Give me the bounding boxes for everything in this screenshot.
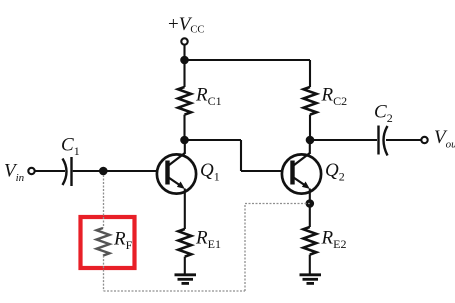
wire feedback to Q2 emitter (dotted)	[245, 203, 310, 205]
wire Vin to C1	[35, 170, 65, 172]
wire RF down (dotted)	[103, 256, 105, 291]
wire feedback bottom (dotted)	[104, 290, 246, 292]
wire RE2 to ground	[309, 255, 311, 274]
wire collector node to Q2 base (horizontal)	[185, 139, 242, 141]
capacitor C1	[63, 157, 72, 186]
wire feedback tap down (dotted)	[103, 175, 105, 228]
wire rail to RC1	[183, 60, 185, 87]
wire rail to RC2	[309, 60, 311, 87]
capacitor C2	[379, 126, 388, 156]
wire top rail	[185, 59, 311, 61]
node Q2 collector	[306, 136, 315, 145]
wire Q1 emitter to RE1	[184, 189, 186, 230]
red highlight box around RF	[81, 217, 135, 268]
wire down segment	[240, 140, 242, 171]
resistor RE1	[178, 229, 191, 257]
wire C2 to Vout	[386, 139, 421, 141]
wire VCC terminal to rail	[183, 45, 185, 60]
terminal Vin	[28, 168, 34, 174]
wire RC1 to collector node	[183, 115, 185, 140]
wire RC2 to collector node	[309, 115, 311, 140]
wire C1 to Q1 base	[73, 170, 157, 172]
wire collector node to C2	[310, 139, 377, 141]
transistor Q1	[157, 153, 196, 194]
ground (RE2)	[300, 275, 322, 284]
wire feedback up (dotted)	[244, 204, 246, 292]
wire to Q2 base	[241, 170, 283, 172]
wire Q2 emitter	[309, 189, 311, 228]
terminal Vout	[421, 137, 427, 143]
terminal VCC	[181, 38, 187, 44]
resistor RE2	[303, 227, 316, 255]
transistor Q2	[282, 153, 321, 194]
wire RE1 to ground	[184, 257, 186, 274]
resistor RC2	[304, 87, 317, 115]
ground (RE1)	[175, 275, 197, 284]
node feedback tap	[99, 167, 108, 176]
wire Q1 collector	[184, 140, 186, 153]
node Q1 collector	[180, 136, 189, 145]
resistor RC1	[178, 87, 191, 115]
node Q2 emitter feedback tap	[306, 199, 315, 208]
resistor RF	[97, 228, 110, 256]
node VCC rail junction	[180, 56, 189, 65]
wire Q2 collector	[309, 140, 311, 153]
